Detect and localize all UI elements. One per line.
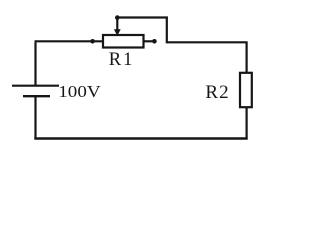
node R1 right terminal (open) <box>152 39 157 44</box>
potentiometer R1 body <box>103 35 144 48</box>
wiper arrowhead <box>114 29 121 36</box>
wire right vertical below R2 <box>246 107 248 140</box>
node R1 left terminal <box>90 39 95 44</box>
battery 100V: long positive plate <box>12 85 59 87</box>
wire wiper branch horizontal top <box>117 16 168 18</box>
svg-text:R1: R1 <box>109 50 135 70</box>
svg-text:100V: 100V <box>58 82 101 101</box>
wire left vertical bottom (battery - to bottom-left corner) <box>34 96 36 138</box>
wire left vertical top (battery + to top-left corner) <box>34 42 36 85</box>
wire R1 right terminal <box>144 40 153 42</box>
wire bottom horizontal <box>34 137 247 140</box>
resistor R2 body <box>240 73 252 107</box>
svg-text:R2: R2 <box>205 82 229 103</box>
wire wiper branch vertical <box>166 17 168 44</box>
junction node at wiper top <box>115 15 120 20</box>
wire top horizontal (to R1 left terminal) <box>35 40 103 42</box>
battery 100V: short negative plate <box>23 95 50 97</box>
wire horizontal from wiper branch to right corner <box>167 41 248 43</box>
wire right vertical above R2 <box>246 42 248 73</box>
wire wiper stem <box>116 18 118 31</box>
